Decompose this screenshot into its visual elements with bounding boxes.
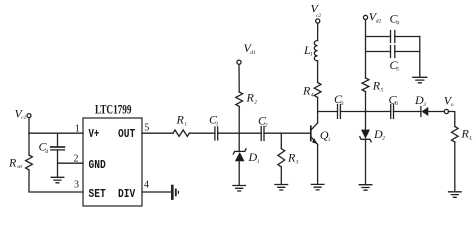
- svg-text:d: d: [45, 149, 48, 155]
- node Vo terminal: [444, 109, 448, 113]
- capacitor C5: [391, 46, 395, 58]
- svg-text:LTC1799: LTC1799: [95, 102, 132, 117]
- label Rset: [8, 155, 23, 170]
- label C3: [334, 92, 344, 107]
- capacitor Cd stub top: [57, 133, 59, 147]
- transistor Q1 collector diagonal: [311, 123, 318, 130]
- wire Vd1 to R2: [238, 64, 240, 92]
- wire R4 to Q1 collector: [317, 98, 319, 123]
- label Vd2: [369, 10, 382, 25]
- svg-text:R: R: [8, 155, 17, 169]
- wire C4 branch: [366, 36, 391, 38]
- wire L1 to R4: [317, 61, 319, 83]
- svg-text:1: 1: [328, 137, 331, 143]
- svg-text:1: 1: [75, 124, 80, 135]
- wire Q1 emitter to ground: [317, 144, 319, 184]
- wire OUT pin5 to R1: [142, 132, 173, 134]
- svg-text:5: 5: [396, 67, 399, 73]
- label C4: [390, 12, 400, 27]
- label C6: [389, 92, 399, 107]
- node Vc1 terminal: [27, 114, 31, 118]
- wire R3 to ground: [280, 167, 282, 185]
- wire C4 to right vertical: [395, 36, 420, 38]
- label D1: [248, 150, 260, 165]
- svg-text:2: 2: [74, 153, 79, 164]
- wire Cd to ground: [57, 163, 59, 177]
- svg-text:GND: GND: [89, 159, 106, 172]
- capacitor Cd plates: [51, 146, 65, 148]
- ground under RL: [449, 192, 462, 198]
- wire junction D to C6: [366, 111, 391, 113]
- svg-text:DIV: DIV: [118, 188, 135, 201]
- label Vc2: [311, 2, 322, 20]
- svg-text:R: R: [287, 151, 296, 165]
- diode D2 triangle: [361, 130, 370, 139]
- wire C6 to D3: [394, 111, 421, 113]
- wire pin4 DIV to ground: [142, 191, 171, 193]
- label C2: [258, 113, 268, 128]
- capacitor C2: [261, 127, 264, 141]
- label Cd: [39, 140, 49, 155]
- label D2: [373, 127, 385, 142]
- svg-text:OUT: OUT: [118, 128, 135, 141]
- wire D2 to ground: [365, 139, 367, 184]
- diode D2 zener bar: [360, 137, 371, 142]
- svg-text:1: 1: [184, 122, 187, 128]
- wire right vertical to ground: [419, 37, 421, 78]
- svg-text:c2: c2: [316, 13, 321, 19]
- svg-text:5: 5: [144, 123, 149, 134]
- svg-text:1: 1: [310, 52, 313, 58]
- svg-text:5: 5: [381, 87, 384, 93]
- resistor R1: [173, 130, 189, 136]
- label Vd1: [244, 41, 256, 56]
- wire junction D to D2: [365, 112, 367, 130]
- transistor Q1 emitter diagonal: [311, 137, 318, 145]
- svg-text:d2: d2: [376, 18, 382, 24]
- label Q1: [320, 128, 331, 143]
- svg-text:V+: V+: [89, 128, 100, 141]
- label C5: [390, 58, 400, 73]
- label R3: [287, 151, 299, 166]
- ground under Cd: [51, 177, 64, 183]
- wire Vd2 rail down to R5: [365, 20, 367, 79]
- label Vo: [444, 94, 454, 109]
- wire D1 to ground: [238, 161, 240, 185]
- svg-text:R: R: [461, 127, 470, 141]
- resistor Rset: [26, 155, 33, 170]
- svg-text:2: 2: [382, 136, 385, 142]
- ground under D2: [359, 185, 372, 191]
- wire R1 to C1: [189, 132, 215, 134]
- ground under D1: [233, 186, 246, 192]
- svg-text:2: 2: [254, 100, 257, 106]
- wire Vo to RL: [449, 112, 455, 127]
- svg-text:o: o: [451, 102, 454, 108]
- wire D3 to Vo: [428, 111, 444, 113]
- label R2: [246, 91, 258, 106]
- capacitor C4: [391, 31, 395, 43]
- diode D1 zener bar: [233, 149, 246, 154]
- wire C5 branch: [366, 51, 391, 53]
- svg-text:3: 3: [422, 102, 426, 108]
- wire Vc2 to L1: [317, 23, 319, 40]
- svg-text:R: R: [176, 113, 185, 127]
- wire C5 to right vertical: [395, 51, 420, 53]
- wire C1 to junction A: [218, 132, 240, 134]
- node Vd2 terminal: [363, 15, 367, 19]
- svg-text:3: 3: [74, 180, 79, 191]
- label Vc1: [15, 107, 27, 122]
- wire R2 to junction A: [238, 106, 240, 133]
- label R1: [176, 113, 188, 128]
- svg-text:4: 4: [144, 179, 149, 190]
- diode D3 triangle: [422, 107, 429, 116]
- wire C2 to junction B: [264, 132, 281, 134]
- transistor Q1 base bar: [310, 126, 312, 140]
- resistor R5: [362, 78, 369, 92]
- wire C3 to junction D: [340, 111, 365, 113]
- wire RL to ground: [454, 142, 456, 192]
- svg-text:2: 2: [265, 123, 268, 129]
- svg-text:L: L: [468, 136, 472, 142]
- svg-text:3: 3: [340, 101, 344, 107]
- svg-text:1: 1: [257, 159, 260, 165]
- svg-text:c1: c1: [21, 115, 26, 121]
- label R5: [372, 78, 384, 93]
- wire junction to pin1 V+: [29, 132, 83, 134]
- label D3: [414, 93, 426, 108]
- resistor RL: [451, 127, 458, 142]
- svg-text:4: 4: [311, 92, 314, 99]
- svg-text:R: R: [246, 91, 255, 105]
- label RL: [461, 127, 473, 142]
- node Vd1 terminal: [237, 60, 241, 64]
- op-amp U1 LTC1799 box: [83, 118, 142, 206]
- svg-text:4: 4: [396, 19, 399, 26]
- svg-text:SET: SET: [89, 188, 106, 201]
- resistor R3: [278, 149, 285, 167]
- ground under C4 C5: [413, 77, 427, 83]
- wire collector node to C3: [318, 111, 338, 113]
- capacitor C3: [338, 105, 341, 119]
- svg-text:3: 3: [295, 160, 299, 166]
- capacitor C1: [215, 127, 218, 140]
- diode D3 bar: [420, 107, 422, 117]
- ground under Q1: [311, 184, 324, 190]
- resistor R4: [314, 83, 321, 98]
- wire Vc1 down to junction and Rset: [28, 118, 30, 155]
- svg-text:6: 6: [395, 101, 398, 107]
- svg-text:set: set: [17, 165, 23, 170]
- wire Cd bottom to GND pin2: [58, 150, 84, 163]
- resistor R2: [236, 92, 243, 106]
- wire R5 to junction D: [365, 92, 367, 112]
- transistor Q1 emitter arrow: [312, 138, 318, 144]
- svg-text:R: R: [302, 84, 311, 98]
- ground under R3: [275, 185, 288, 191]
- svg-text:R: R: [372, 78, 381, 92]
- inductor L1: [314, 41, 317, 61]
- wire junction A to C2: [239, 132, 261, 134]
- svg-text:1: 1: [216, 121, 219, 127]
- label R4: [302, 84, 314, 99]
- wire junction B down to R3: [280, 133, 282, 148]
- ground sideways at DIV: [171, 186, 174, 199]
- capacitor C6: [391, 105, 394, 119]
- diode D1 triangle: [235, 152, 245, 161]
- wire Rset to bottom rail: [29, 170, 83, 192]
- label C1: [209, 113, 219, 128]
- node Vc2 terminal: [316, 19, 320, 23]
- wire junction A to D1: [238, 133, 240, 151]
- label L1: [303, 43, 313, 58]
- svg-text:d1: d1: [250, 50, 256, 56]
- wire junction B to Q1 base: [281, 132, 310, 134]
